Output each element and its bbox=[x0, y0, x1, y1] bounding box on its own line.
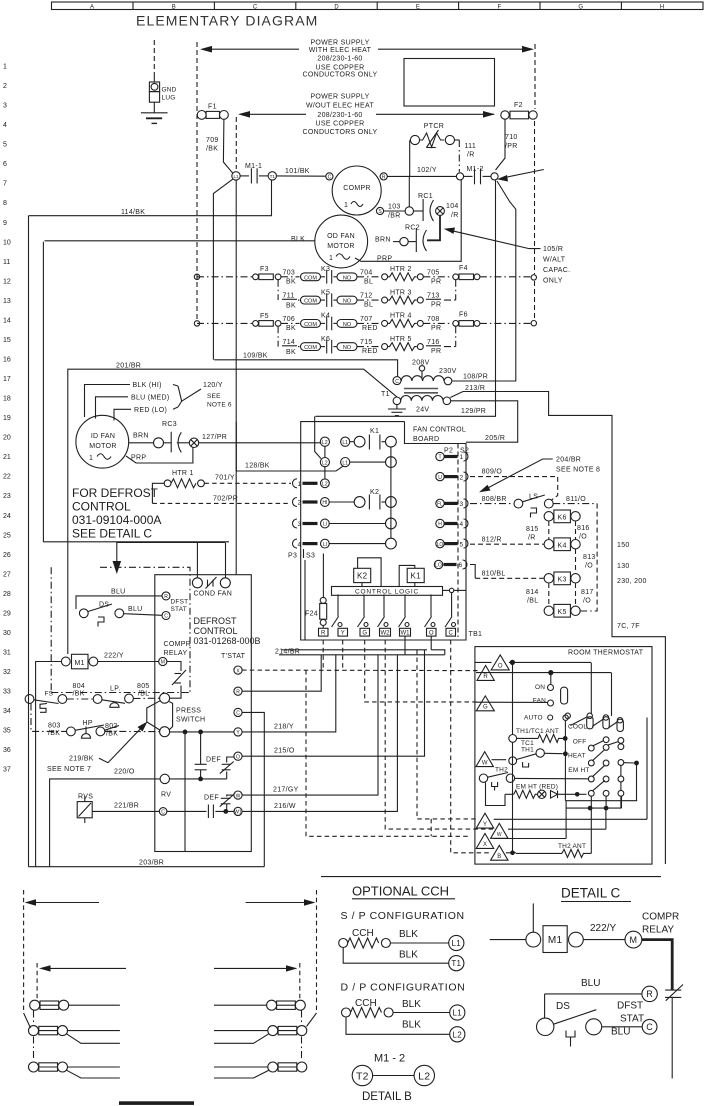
svg-text:/BL: /BL bbox=[138, 691, 149, 698]
svg-text:CONDUCTORS ONLY: CONDUCTORS ONLY bbox=[302, 72, 377, 79]
wire 201/BR bbox=[68, 363, 397, 655]
wire BLU (MED) bbox=[96, 395, 170, 419]
svg-text:702/PR: 702/PR bbox=[213, 496, 238, 503]
svg-text:B: B bbox=[172, 4, 176, 10]
svg-text:DFST: DFST bbox=[171, 599, 189, 606]
svg-text:NOTE 6: NOTE 6 bbox=[207, 402, 232, 409]
wire 217/GY to TB1 bbox=[242, 655, 378, 795]
svg-text:HEAT: HEAT bbox=[568, 753, 586, 760]
wire 129/PR bbox=[316, 180, 496, 416]
connector P2 row 1 T bbox=[436, 452, 468, 461]
reversing valve RVS bbox=[77, 794, 159, 824]
svg-text:OFF: OFF bbox=[573, 739, 587, 746]
svg-text:706: 706 bbox=[283, 316, 296, 323]
svg-text:208/230-1-60: 208/230-1-60 bbox=[317, 112, 362, 119]
svg-text:25: 25 bbox=[3, 532, 11, 539]
svg-text:8: 8 bbox=[3, 200, 7, 207]
svg-text:4: 4 bbox=[460, 521, 464, 528]
svg-text:CONTROL: CONTROL bbox=[72, 500, 131, 514]
svg-text:22: 22 bbox=[3, 474, 11, 481]
svg-text:C: C bbox=[236, 711, 240, 717]
fuse F4 bbox=[453, 265, 531, 280]
svg-text:F6: F6 bbox=[459, 312, 468, 319]
terminal B triangle bbox=[491, 845, 516, 860]
svg-text:111: 111 bbox=[465, 143, 477, 150]
svg-text:R: R bbox=[164, 594, 168, 600]
svg-text:F3: F3 bbox=[260, 266, 269, 273]
row B L2 L1 bbox=[320, 446, 396, 479]
wire RED (LO) bbox=[114, 407, 178, 421]
svg-text:114/BK: 114/BK bbox=[121, 209, 145, 216]
svg-text:P3: P3 bbox=[288, 553, 297, 560]
svg-text:C: C bbox=[449, 631, 454, 637]
svg-text:W/OUT ELEC HEAT: W/OUT ELEC HEAT bbox=[306, 102, 374, 109]
note: power supply w/out elec heat bbox=[302, 93, 377, 136]
svg-text:Y: Y bbox=[341, 631, 345, 637]
svg-text:/O: /O bbox=[579, 534, 587, 541]
svg-text:HTR 2: HTR 2 bbox=[390, 266, 412, 273]
DETAIL C SECTION bbox=[561, 886, 679, 936]
svg-text:R: R bbox=[483, 674, 488, 680]
svg-text:130: 130 bbox=[617, 563, 630, 570]
svg-text:215/O: 215/O bbox=[274, 748, 295, 755]
svg-text:BOARD: BOARD bbox=[413, 436, 439, 443]
svg-text:/BL: /BL bbox=[527, 598, 538, 605]
svg-text:K5: K5 bbox=[321, 290, 330, 297]
svg-text:ONLY: ONLY bbox=[543, 278, 563, 285]
wire 714/BK row4 bbox=[278, 326, 299, 356]
svg-text:13: 13 bbox=[3, 298, 11, 305]
wire 809/O bbox=[470, 469, 558, 501]
svg-text:HTR 1: HTR 1 bbox=[172, 470, 194, 477]
border ruler bbox=[52, 2, 704, 10]
wire R tstat to TB1 bbox=[242, 655, 321, 691]
svg-text:FOR DEFROST: FOR DEFROST bbox=[72, 486, 159, 500]
svg-text:K4: K4 bbox=[321, 313, 330, 320]
svg-text:216/W: 216/W bbox=[274, 803, 296, 810]
svg-text:102/Y: 102/Y bbox=[417, 167, 437, 174]
svg-text:TH2 ANT: TH2 ANT bbox=[558, 843, 586, 850]
junction on feed at F4 row bbox=[531, 275, 536, 280]
relay coil K5 bbox=[544, 604, 580, 617]
svg-text:7: 7 bbox=[3, 181, 7, 188]
contact M1-1 bbox=[232, 163, 277, 184]
svg-text:CCH: CCH bbox=[352, 928, 374, 939]
svg-text:F24: F24 bbox=[305, 611, 318, 618]
svg-text:L1: L1 bbox=[452, 939, 462, 948]
svg-text:DEF: DEF bbox=[204, 795, 219, 802]
svg-text:1: 1 bbox=[344, 202, 348, 209]
svg-text:FAN: FAN bbox=[533, 698, 546, 705]
svg-text:811/O: 811/O bbox=[566, 496, 586, 503]
svg-text:S3: S3 bbox=[306, 553, 315, 560]
svg-text:9: 9 bbox=[3, 220, 7, 227]
svg-text:29: 29 bbox=[3, 610, 11, 617]
wire 712/BL bbox=[357, 293, 381, 309]
svg-text:104: 104 bbox=[446, 203, 459, 210]
svg-text:DETAIL C: DETAIL C bbox=[561, 886, 621, 901]
svg-text:23: 23 bbox=[3, 493, 11, 500]
svg-text:X: X bbox=[483, 842, 487, 848]
svg-text:STAT: STAT bbox=[620, 1014, 644, 1025]
wire 103/BR bbox=[384, 176, 424, 219]
ground at T1 bbox=[388, 405, 406, 416]
svg-text:BK: BK bbox=[286, 303, 296, 310]
svg-text:222/Y: 222/Y bbox=[590, 923, 616, 934]
svg-text:BLK (HI): BLK (HI) bbox=[133, 382, 162, 389]
svg-text:O: O bbox=[236, 754, 240, 760]
svg-text:3: 3 bbox=[298, 521, 302, 528]
svg-text:L2: L2 bbox=[453, 1030, 463, 1039]
wire Y to TB1 bbox=[242, 655, 336, 732]
svg-text:AUTO: AUTO bbox=[524, 715, 543, 722]
ground lug bbox=[141, 40, 177, 123]
connector P3 row 2 + relay contact K2 bbox=[293, 489, 397, 510]
wire 205/R bbox=[451, 401, 518, 442]
resistor HTR 4 bbox=[382, 313, 424, 328]
svg-text:15: 15 bbox=[3, 337, 11, 344]
wire 811/O bbox=[553, 496, 597, 612]
svg-text:814: 814 bbox=[526, 589, 539, 596]
svg-text:4: 4 bbox=[3, 122, 7, 129]
svg-text:ELEMENTARY DIAGRAM: ELEMENTARY DIAGRAM bbox=[136, 13, 318, 29]
flow switch FS row bbox=[25, 683, 159, 712]
wire M1 coil left bbox=[36, 662, 62, 867]
svg-text:M1 - 2: M1 - 2 bbox=[374, 1053, 405, 1065]
compr relay nc contact (detail C) bbox=[642, 940, 683, 1079]
svg-text:T'STAT: T'STAT bbox=[221, 653, 246, 660]
wire W 217/GY bbox=[273, 787, 299, 794]
svg-text:M1: M1 bbox=[548, 935, 563, 946]
svg-text:28: 28 bbox=[3, 591, 11, 598]
svg-text:C: C bbox=[395, 379, 399, 385]
svg-text:PRESS: PRESS bbox=[176, 708, 201, 715]
svg-text:BRN: BRN bbox=[375, 237, 391, 244]
svg-text:M1-1: M1-1 bbox=[245, 163, 262, 170]
transformer T1 bbox=[381, 360, 457, 414]
svg-text:18: 18 bbox=[3, 396, 11, 403]
svg-text:24V: 24V bbox=[416, 407, 429, 414]
terminal W2 triangle bbox=[491, 808, 606, 838]
svg-text:SEE NOTE 7: SEE NOTE 7 bbox=[47, 766, 91, 773]
harness fuse row 1 bbox=[30, 1000, 306, 1010]
cond fan contact bbox=[192, 543, 232, 598]
svg-text:/PR: /PR bbox=[505, 143, 518, 150]
anticipator TH1/TC1 ANT bbox=[509, 663, 568, 853]
note: for defrost control bbox=[72, 486, 161, 541]
wire 814/BL bbox=[526, 583, 549, 606]
HARNESS BOTTOM LEFT bbox=[24, 890, 317, 1028]
wire 214/BR bus bbox=[275, 649, 445, 656]
output switches bbox=[332, 593, 456, 627]
svg-text:219/BK: 219/BK bbox=[69, 756, 94, 763]
terminal Y triangle bbox=[476, 813, 647, 828]
svg-text:5: 5 bbox=[3, 142, 7, 149]
svg-text:805: 805 bbox=[137, 683, 150, 690]
wire 102/Y bbox=[387, 167, 456, 176]
fuse F24 bbox=[305, 554, 327, 629]
harness fuse row 3 bbox=[29, 1037, 307, 1079]
connector P2 row 5 LO bbox=[436, 539, 468, 548]
wire 701/Y bbox=[204, 475, 291, 484]
fuse F3 bbox=[197, 266, 281, 280]
svg-text:EM HT (RED): EM HT (RED) bbox=[516, 784, 558, 791]
capacitor RC3 bbox=[129, 421, 199, 452]
svg-text:T: T bbox=[438, 455, 441, 461]
svg-text:6: 6 bbox=[459, 562, 463, 569]
svg-text:37: 37 bbox=[3, 767, 11, 774]
svg-text:20: 20 bbox=[3, 435, 11, 442]
svg-text:DEFROST: DEFROST bbox=[194, 616, 238, 626]
svg-text:R: R bbox=[646, 989, 653, 999]
svg-text:/O: /O bbox=[585, 563, 593, 570]
wire 216/W to TB1 bbox=[242, 655, 397, 812]
svg-text:/R: /R bbox=[467, 152, 475, 159]
note: optional cch heading bbox=[341, 884, 465, 923]
svg-text:SWITCH: SWITCH bbox=[176, 717, 205, 724]
wire 114/BK bbox=[29, 180, 272, 867]
fan control board outline bbox=[301, 422, 466, 640]
wire: supply feed dashed left bbox=[196, 42, 198, 320]
svg-text:F: F bbox=[497, 4, 501, 10]
svg-text:817: 817 bbox=[581, 589, 594, 596]
svg-text:NO: NO bbox=[343, 275, 352, 281]
wire 104/R bbox=[446, 203, 459, 219]
svg-text:F2: F2 bbox=[514, 102, 523, 109]
svg-text:RELAY: RELAY bbox=[642, 925, 674, 936]
wire: supply arrow 2 bbox=[238, 111, 495, 118]
terminal W triangle bbox=[476, 752, 506, 767]
wire: supply feed dashed right bbox=[534, 44, 536, 109]
svg-text:21: 21 bbox=[3, 454, 11, 461]
svg-text:11: 11 bbox=[3, 259, 10, 266]
wire: supply arrow 1 bbox=[200, 46, 534, 53]
wire 815/R bbox=[526, 521, 549, 542]
svg-text:BL: BL bbox=[364, 302, 373, 309]
svg-text:K6: K6 bbox=[558, 515, 567, 522]
svg-text:W/ALT: W/ALT bbox=[543, 257, 566, 264]
wire 816/O bbox=[576, 521, 590, 541]
svg-text:M: M bbox=[161, 660, 165, 666]
svg-text:M1-2: M1-2 bbox=[467, 166, 484, 173]
svg-text:27: 27 bbox=[3, 571, 11, 578]
svg-text:K2: K2 bbox=[357, 572, 368, 581]
junction on feed at F6 row bbox=[531, 321, 536, 326]
resistor HTR 1 bbox=[164, 470, 204, 488]
relay contact K3 bbox=[301, 266, 358, 284]
svg-text:204/BR: 204/BR bbox=[556, 457, 581, 464]
wire 129/PR drop bbox=[315, 416, 321, 458]
id fan motor bbox=[76, 415, 129, 468]
svg-text:714: 714 bbox=[283, 339, 296, 346]
svg-text:L1: L1 bbox=[342, 460, 348, 466]
svg-text:PTCR: PTCR bbox=[424, 123, 444, 130]
relay coil K3 bbox=[544, 572, 580, 585]
svg-text:BK: BK bbox=[286, 325, 296, 332]
svg-text:COM: COM bbox=[304, 299, 317, 305]
connector P3 row 3 bbox=[293, 518, 397, 529]
svg-text:D: D bbox=[334, 4, 339, 10]
svg-text:101/BK: 101/BK bbox=[285, 168, 310, 175]
fuse F5 bbox=[197, 313, 281, 326]
svg-text:C: C bbox=[328, 175, 332, 181]
svg-text:CONDUCTORS ONLY: CONDUCTORS ONLY bbox=[302, 129, 377, 136]
dfst stat terminals bbox=[162, 592, 188, 620]
compressor motor bbox=[326, 166, 388, 215]
svg-text:CCH: CCH bbox=[355, 998, 377, 1009]
svg-text:W: W bbox=[497, 832, 502, 838]
svg-text:716: 716 bbox=[427, 339, 440, 346]
svg-text:810/BL: 810/BL bbox=[482, 571, 506, 578]
svg-text:TB1: TB1 bbox=[469, 631, 483, 638]
svg-text:C: C bbox=[646, 1022, 653, 1032]
svg-text:809/O: 809/O bbox=[482, 469, 503, 476]
svg-text:708: 708 bbox=[427, 316, 440, 323]
svg-text:203/BR: 203/BR bbox=[139, 860, 164, 867]
svg-text:208/230-1-60: 208/230-1-60 bbox=[317, 55, 362, 62]
svg-text:PR: PR bbox=[431, 325, 441, 332]
press switch bbox=[147, 693, 206, 737]
thermostat TH2 bbox=[479, 767, 514, 791]
svg-text:129/PR: 129/PR bbox=[461, 408, 486, 415]
svg-text:RC2: RC2 bbox=[405, 225, 420, 232]
note 105/R w/alt capac bbox=[444, 228, 571, 285]
svg-text:K1: K1 bbox=[411, 572, 422, 581]
resistor HTR 5 bbox=[382, 336, 424, 351]
em ht resistor bbox=[486, 782, 587, 805]
svg-text:813: 813 bbox=[583, 554, 596, 561]
svg-text:POWER SUPPLY: POWER SUPPLY bbox=[310, 93, 369, 100]
svg-text:ID FAN: ID FAN bbox=[91, 433, 115, 440]
svg-text:FAN CONTROL: FAN CONTROL bbox=[413, 427, 466, 434]
relay contact K4 bbox=[301, 313, 358, 331]
svg-text:RED: RED bbox=[362, 348, 378, 355]
svg-text:707: 707 bbox=[360, 316, 373, 323]
svg-text:31: 31 bbox=[3, 650, 11, 657]
svg-text:17: 17 bbox=[3, 376, 11, 383]
svg-text:RC3: RC3 bbox=[162, 421, 177, 428]
wire 813/O bbox=[576, 549, 596, 574]
svg-text:812/R: 812/R bbox=[482, 537, 502, 544]
svg-text:COM: COM bbox=[304, 322, 317, 328]
empty box top right bbox=[404, 59, 495, 107]
wire O 215/O bbox=[274, 748, 295, 755]
svg-text:COM: COM bbox=[304, 275, 317, 281]
svg-text:1: 1 bbox=[329, 255, 333, 262]
svg-text:O: O bbox=[429, 631, 434, 637]
svg-text:/O: /O bbox=[583, 598, 591, 605]
row numbers bbox=[3, 64, 11, 774]
wire 704/BL bbox=[357, 270, 381, 286]
wire PRP (id fan) bbox=[126, 448, 193, 464]
svg-text:USE COPPER: USE COPPER bbox=[316, 64, 365, 71]
svg-text:BL: BL bbox=[364, 279, 373, 286]
wire: section divider bbox=[321, 876, 661, 878]
wire 711/BK row2 bbox=[278, 280, 299, 310]
capacitor RC2 bbox=[375, 215, 440, 252]
dfst stat contacts (detail C) bbox=[537, 978, 658, 1047]
svg-text:/BR: /BR bbox=[388, 213, 401, 220]
svg-text:OPTIONAL CCH: OPTIONAL CCH bbox=[352, 884, 449, 899]
svg-text:701/Y: 701/Y bbox=[215, 475, 235, 482]
svg-text:F4: F4 bbox=[459, 265, 468, 272]
svg-text:COND FAN: COND FAN bbox=[194, 591, 233, 598]
svg-text:BLU: BLU bbox=[128, 606, 143, 613]
wire 213/R bbox=[450, 385, 665, 864]
svg-text:4: 4 bbox=[298, 541, 302, 548]
svg-text:SEE NOTE 8: SEE NOTE 8 bbox=[556, 467, 600, 474]
wire 810/BL bbox=[470, 565, 544, 579]
wire 101/BK bbox=[277, 168, 326, 176]
relay contact K6 bbox=[301, 336, 358, 353]
svg-text:R: R bbox=[236, 689, 240, 695]
svg-text:712: 712 bbox=[360, 293, 373, 300]
heater CCH (d/p) bbox=[342, 998, 465, 1042]
def contact 2 bbox=[167, 795, 234, 819]
wire 703/BK bbox=[281, 270, 300, 286]
svg-text:D / P CONFIGURATION: D / P CONFIGURATION bbox=[341, 982, 466, 994]
svg-text:H: H bbox=[438, 522, 442, 528]
svg-text:108/PR: 108/PR bbox=[463, 374, 488, 381]
svg-text:816: 816 bbox=[577, 525, 590, 532]
svg-text:L1: L1 bbox=[453, 1009, 463, 1018]
svg-text:BRN: BRN bbox=[133, 433, 149, 440]
svg-text:BLU: BLU bbox=[111, 589, 126, 596]
svg-text:BLK: BLK bbox=[399, 929, 418, 940]
svg-text:LO: LO bbox=[437, 542, 444, 548]
svg-text:O: O bbox=[498, 664, 503, 670]
svg-text:P2: P2 bbox=[444, 448, 453, 455]
svg-text:POWER SUPPLY: POWER SUPPLY bbox=[310, 40, 369, 47]
svg-text:804: 804 bbox=[73, 683, 86, 690]
svg-text:DFST: DFST bbox=[617, 1001, 643, 1012]
RV terminal C bbox=[159, 792, 171, 816]
svg-text:16: 16 bbox=[3, 357, 11, 364]
svg-text:G: G bbox=[362, 631, 367, 637]
svg-text:LO: LO bbox=[435, 563, 442, 569]
svg-text:3: 3 bbox=[3, 103, 7, 110]
svg-text:2: 2 bbox=[298, 500, 302, 507]
svg-text:E: E bbox=[416, 4, 420, 10]
relay coil K4 bbox=[544, 538, 580, 551]
svg-text:FL: FL bbox=[437, 502, 443, 508]
connector P2 S2 label bbox=[444, 444, 469, 638]
svg-text:220/O: 220/O bbox=[114, 769, 135, 776]
svg-text:HTR 3: HTR 3 bbox=[390, 290, 412, 297]
wire 707/RED bbox=[357, 316, 381, 332]
svg-text:CAPAC.: CAPAC. bbox=[543, 267, 570, 274]
svg-text:103: 103 bbox=[388, 204, 401, 211]
svg-text:MOTOR: MOTOR bbox=[89, 443, 116, 450]
svg-text:C: C bbox=[164, 614, 168, 620]
svg-text:10: 10 bbox=[3, 239, 11, 246]
svg-text:L1: L1 bbox=[233, 174, 239, 179]
svg-text:M1: M1 bbox=[75, 660, 85, 667]
wire 215/O to TB1 bbox=[242, 650, 424, 756]
svg-text:36: 36 bbox=[3, 747, 11, 754]
svg-text:1: 1 bbox=[89, 455, 93, 462]
heater CCH (s/p) bbox=[339, 928, 464, 971]
wire 706/BK bbox=[281, 316, 300, 332]
terminal R triangle bbox=[476, 666, 612, 685]
connector P2 row 4 H bbox=[436, 519, 468, 528]
terminal G triangle bbox=[476, 696, 547, 711]
svg-text:K2: K2 bbox=[370, 489, 379, 496]
svg-text:201/BR: 201/BR bbox=[116, 363, 141, 370]
connector P2 row 3 FL bbox=[436, 499, 468, 508]
svg-text:218/Y: 218/Y bbox=[274, 724, 294, 731]
connector P2 row 2 U bbox=[436, 472, 468, 481]
